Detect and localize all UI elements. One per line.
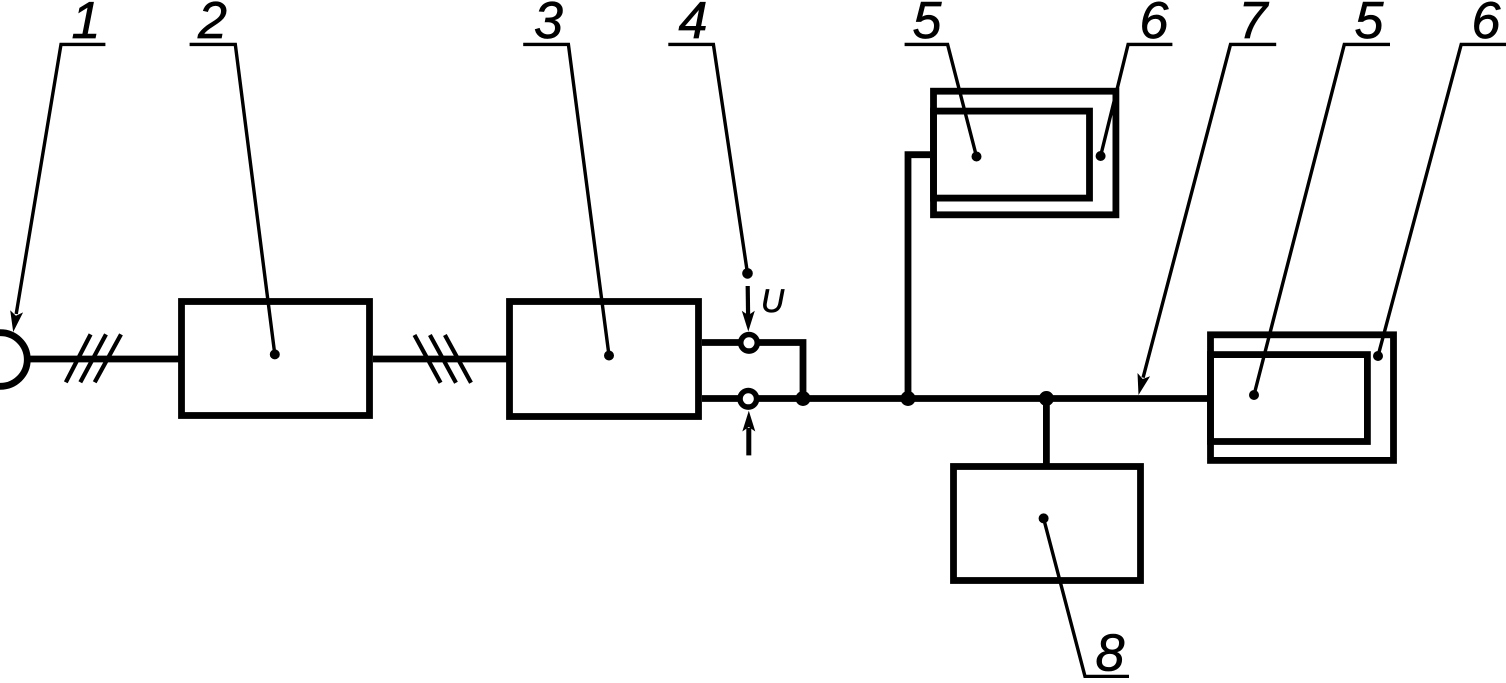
svg-text:8: 8 [1096,625,1125,679]
hatch marks (break symbol) on wire 2-3 [415,335,472,383]
box 8 [954,467,1141,581]
svg-text:2: 2 [197,0,227,50]
main bus wire [702,395,1210,402]
wire from bus up to top display box [908,155,930,399]
junction node at top box branch [901,391,916,406]
wire circle1 to box 2 [26,356,181,363]
leader line 5 right [1249,44,1390,400]
svg-text:7: 7 [1239,0,1270,50]
leader line 6 top [1096,44,1173,161]
terminal circle 4 top [741,335,758,352]
leader line 3 [523,44,614,360]
wire box2 to box3 [373,356,509,363]
junction node at box 8 branch [1039,391,1054,406]
transducer circle 1 [0,333,27,387]
svg-text:1: 1 [72,0,101,50]
display inner rect 5 (top) [934,111,1090,198]
svg-text:6: 6 [1472,0,1501,50]
leader line 5 top [905,44,982,161]
wire from bus down to box 8 [1043,399,1050,467]
U arrow into top terminal [742,286,755,332]
display outer rect 6 (right) [1211,335,1394,461]
junction node at link corner [796,391,811,406]
svg-text:4: 4 [679,0,708,50]
leader line 1 with arrow [10,44,105,332]
leader line 7 with arrow [1138,44,1277,395]
leader line 4 [668,44,753,278]
svg-text:5: 5 [913,0,943,50]
wire box3 top output to link corner [702,343,803,399]
hatch marks (break symbol) on wire 1-2 [66,334,121,382]
display outer rect 6 (top) [934,91,1116,215]
box 3 [510,302,699,417]
leader line 2 [190,44,280,359]
svg-text:6: 6 [1140,0,1169,50]
display inner rect 5 (right) [1211,355,1368,442]
terminal circle 4 bottom [740,391,757,408]
arrow into bottom terminal [742,411,755,456]
leader line 6 right [1373,44,1506,361]
svg-text:U: U [761,283,785,319]
leader line 8 [1039,513,1129,676]
svg-text:3: 3 [534,0,563,50]
svg-text:5: 5 [1355,0,1385,50]
box 2 [182,302,370,416]
